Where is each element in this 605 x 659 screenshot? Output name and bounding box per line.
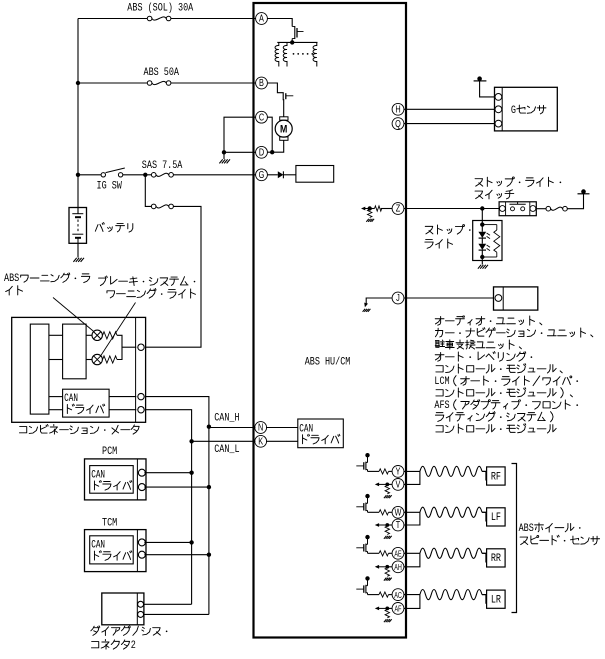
twisted pair LR — [420, 590, 482, 600]
wire diag to CAN_L bus — [144, 603, 191, 605]
wire pin B internal — [268, 83, 284, 117]
svg-text:TCM: TCM — [102, 516, 117, 528]
wire meter fuse to meter lamp pin — [145, 206, 201, 347]
pin AC — [392, 589, 404, 601]
wire CAN box to pin3 — [109, 409, 136, 411]
wire resistor to pin LR — [389, 594, 393, 596]
wire mosfet to resistor RF — [368, 470, 380, 472]
svg-text:LCM: LCM — [434, 375, 449, 387]
meter pin circle 2 — [138, 393, 144, 399]
solenoid coil n — [313, 42, 317, 66]
resistor brake lamp — [103, 356, 117, 363]
sensor box LF — [487, 508, 506, 526]
diag pin circle 1 — [138, 601, 144, 607]
label driver (PCM) — [94, 481, 131, 491]
pin V — [392, 478, 404, 490]
svg-text:PCM: PCM — [102, 445, 117, 457]
twisted pair LF — [420, 507, 482, 517]
wire left vertical feed — [77, 19, 79, 175]
svg-text:B: B — [259, 77, 264, 88]
svg-text:CAN: CAN — [64, 392, 78, 405]
wire pin2 external LF — [404, 512, 420, 525]
wire coil to sensor top RR — [482, 552, 487, 554]
wire Z int stub — [370, 208, 375, 210]
label unit list line 1 — [435, 316, 542, 326]
arrow to other circuit RR — [375, 565, 388, 569]
transistor Q1 solenoid driver — [292, 26, 303, 42]
resistor Z internal — [375, 206, 382, 211]
wire CAN_L meter to bus — [145, 410, 192, 442]
wire to SAS fuse — [145, 174, 151, 176]
wire CAN_L to pin K — [192, 440, 256, 442]
wire module link 1 — [49, 334, 63, 336]
svg-text:V: V — [396, 478, 401, 489]
label driver (U2) — [303, 434, 340, 444]
svg-text:G: G — [511, 104, 516, 116]
svg-text:ABS: ABS — [4, 272, 19, 284]
pin Z — [392, 203, 404, 215]
svg-text:CAN: CAN — [299, 422, 313, 435]
wire pin C internal — [267, 117, 272, 152]
wire TCM to CAN_H bus — [144, 554, 209, 556]
label driver (meter) — [67, 404, 104, 414]
wire pin Z internal — [381, 208, 393, 210]
svg-text:LF: LF — [491, 511, 501, 523]
resistor lower to ground LF — [385, 526, 389, 535]
svg-text:AF: AF — [395, 606, 402, 614]
resistor sensor LF — [379, 510, 389, 515]
junction lower LF — [385, 523, 389, 527]
label stop light line1 — [425, 225, 470, 234]
wire resistor to pin RF — [389, 470, 393, 472]
wire lamp join — [117, 335, 122, 359]
svg-text:ABS (SOL) 30A: ABS (SOL) 30A — [127, 1, 193, 13]
label unit list line 5 — [436, 364, 562, 374]
wire lamps to pin — [122, 346, 136, 348]
battery — [69, 208, 87, 244]
svg-text:SAS 7.5A: SAS 7.5A — [142, 159, 183, 171]
junction lower LR — [385, 607, 389, 611]
G sensor box — [495, 87, 558, 131]
svg-text:CAN: CAN — [91, 538, 105, 551]
wire mosfet to resistor LR — [368, 594, 380, 596]
sensor box RR — [487, 549, 506, 567]
ground lower LF — [384, 536, 392, 539]
wire to brake warning lamp — [86, 359, 92, 361]
pin C — [256, 111, 268, 123]
wire to IG SW — [78, 174, 101, 176]
svg-text:C: C — [259, 111, 265, 122]
wire coil to sensor bottom LR — [482, 595, 487, 604]
junction C/D/motor — [270, 150, 274, 154]
fuse ABS (SOL) 30A — [147, 16, 171, 21]
transistor sensor driver RR — [356, 539, 367, 554]
ground J internal — [363, 309, 371, 312]
label stop light switch line1 — [475, 177, 561, 187]
power dot RR — [365, 535, 369, 539]
svg-text:M: M — [280, 124, 287, 136]
svg-text:LR: LR — [491, 594, 501, 606]
wire CAN_L bus down — [191, 441, 193, 604]
wire fuse to power — [567, 194, 583, 209]
svg-text:Z: Z — [396, 203, 401, 214]
wire pin J internal — [366, 298, 392, 305]
wire meter CAN link 2 — [49, 409, 63, 411]
stop light box — [473, 221, 502, 261]
meter inner module — [30, 324, 49, 414]
pin Y — [392, 465, 404, 477]
switch stop light switch box — [499, 202, 536, 216]
svg-text:T: T — [396, 519, 401, 530]
resistor sensor LR — [379, 592, 389, 597]
sensor box RF — [487, 467, 506, 485]
resistor lower to ground RF — [385, 485, 389, 494]
junction TCM CAN_L — [189, 540, 193, 544]
junction stop light bottom — [480, 255, 484, 259]
pin K — [255, 435, 267, 447]
junction PCM CAN_L — [189, 471, 193, 475]
dotted continuation — [293, 53, 314, 55]
svg-text:AFS: AFS — [434, 399, 449, 411]
CAN driver box PCM — [90, 466, 134, 494]
ground lower RF — [384, 495, 392, 498]
wire meter CAN link 1 — [49, 396, 63, 398]
label unit list line 7 — [436, 388, 573, 398]
relay box — [296, 166, 334, 183]
wire coil to sensor top LF — [482, 511, 487, 513]
wire pin1 external LR — [404, 594, 420, 596]
label unit list line 3 — [435, 340, 521, 349]
transistor Q2 motor driver — [283, 92, 293, 99]
transistor sensor driver RF — [356, 457, 367, 472]
wire feed to battery — [77, 175, 79, 214]
wire pin2 external RF — [404, 471, 420, 484]
wire battery feed to A — [78, 18, 147, 20]
PCM box — [85, 459, 147, 500]
wire battery to ground — [77, 243, 79, 257]
junction lower RR — [385, 565, 389, 569]
junction SAS branch — [143, 173, 147, 177]
label driver (TCM) — [94, 551, 131, 561]
wire pin2 external LR — [404, 595, 420, 609]
svg-text:ABS HU/CM: ABS HU/CM — [305, 355, 351, 367]
wire CAN box to pin2 — [109, 396, 136, 398]
PCM pin circle 1 — [138, 469, 145, 476]
meter pin circle 1 — [138, 344, 144, 350]
arrow connector (J) — [364, 303, 368, 308]
wire lower pin stub RR — [387, 566, 392, 568]
wire lower pin stub RF — [387, 483, 392, 485]
pin W — [392, 506, 404, 518]
label unit list line 2 — [435, 328, 592, 338]
resistor lower to ground LR — [385, 609, 389, 618]
wire TCM to CAN_L bus — [144, 541, 191, 543]
PCM pin circle 2 — [138, 484, 145, 491]
twisted pair RF — [420, 466, 482, 476]
pin H — [392, 103, 404, 115]
ground stop light — [478, 265, 488, 269]
svg-text:IG SW: IG SW — [97, 180, 122, 192]
fuse SAS 7.5A — [151, 173, 173, 178]
ground lower RR — [384, 578, 392, 581]
CAN driver box meter — [63, 389, 110, 417]
wire pin1 external RF — [404, 470, 420, 472]
label battery — [95, 223, 132, 233]
svg-text:ABS 50A: ABS 50A — [144, 66, 180, 78]
pin B — [256, 77, 268, 89]
label unit list line 4 — [435, 352, 532, 362]
resistor stop light branch — [482, 225, 500, 257]
bracket wheel sensors — [512, 464, 517, 613]
wire coil to sensor top LR — [482, 594, 487, 596]
power dot RF — [365, 453, 369, 457]
junction Z internal — [368, 206, 372, 210]
pin N — [255, 422, 267, 434]
diode D1 — [278, 171, 284, 178]
combination meter box — [12, 317, 146, 422]
junction C/D external — [222, 150, 226, 154]
pin G — [256, 169, 268, 181]
resistor Z to ground — [368, 210, 372, 218]
power feed G sensor — [474, 76, 487, 81]
svg-text:H: H — [395, 103, 400, 114]
sensor box LR — [487, 590, 506, 608]
svg-text:CAN: CAN — [91, 468, 105, 481]
fuse meter — [151, 204, 173, 209]
wire pin D external — [224, 151, 256, 153]
label stop light line2 — [425, 239, 453, 248]
resistor sensor RF — [379, 469, 389, 474]
CAN driver box TCM — [90, 536, 134, 564]
motor M pump — [275, 117, 292, 140]
bulb diode 2 — [478, 244, 490, 251]
resistor lower to ground RR — [385, 568, 389, 577]
wire pin2 external RR — [404, 553, 420, 567]
wire power to G sensor pin1 — [480, 81, 495, 97]
label unit list line 9 — [435, 412, 553, 422]
pin D — [256, 146, 268, 158]
svg-text:K: K — [258, 435, 263, 446]
wire pin K internal — [266, 440, 298, 442]
pin AE — [392, 547, 404, 559]
label G sensor — [511, 104, 546, 116]
junction stop light top — [480, 222, 484, 226]
svg-text:RF: RF — [491, 470, 501, 482]
diag pin circle 2 — [138, 611, 144, 617]
junction lower RF — [385, 483, 389, 487]
wire PCM to CAN_H bus — [144, 486, 209, 488]
wire tap to stop light — [481, 209, 483, 221]
wire CAN_H bus down — [208, 427, 210, 615]
wire to ground C/D — [223, 152, 225, 159]
wire diode to relay box — [283, 174, 296, 176]
svg-text:N: N — [258, 422, 263, 433]
wire CAN_H meter to bus — [145, 397, 209, 427]
wire stop light to ground — [481, 257, 483, 265]
pin AH — [392, 561, 404, 573]
ground battery — [73, 258, 84, 262]
meter lamp module — [63, 324, 87, 379]
wire module link 2 — [49, 359, 63, 361]
label ABS wheel speed sensor line1 — [519, 522, 581, 534]
wire pin C external — [224, 117, 256, 152]
label unit list line 8 — [434, 399, 578, 411]
label stop light switch line2 — [475, 190, 514, 199]
wire lower pin stub LF — [387, 524, 392, 526]
TCM pin circle 2 — [138, 551, 145, 558]
wire mosfet to resistor LF — [368, 511, 380, 513]
CAN driver box U2 — [298, 419, 344, 448]
svg-text:D: D — [259, 146, 264, 157]
arrow to other circuit RF — [375, 483, 388, 487]
svg-text:2: 2 — [131, 639, 136, 651]
junction TCM CAN_H — [207, 553, 211, 557]
label diagnosis line1 — [91, 626, 168, 636]
svg-text:AE: AE — [394, 551, 402, 559]
junction stop light tap — [480, 206, 484, 210]
svg-text:AC: AC — [394, 592, 402, 600]
resistor sensor RR — [379, 551, 389, 556]
meter pin circle 3 — [138, 407, 144, 413]
label ABS wheel speed sensor line2 — [520, 535, 600, 545]
ground Z internal — [366, 219, 374, 222]
diagnosis connector box — [102, 593, 144, 625]
solenoid coil 2 — [283, 42, 287, 66]
pin AF — [392, 603, 404, 615]
label ABS warning light line2 — [6, 286, 23, 295]
fuse stop light — [546, 206, 567, 211]
wire lower pin stub LR — [387, 607, 392, 609]
label unit list line 10 — [436, 424, 556, 434]
lamp brake system warning light — [92, 354, 102, 364]
wire fuse to pin B — [171, 82, 256, 84]
wire coil to sensor bottom RR — [482, 553, 487, 562]
svg-text:J: J — [396, 292, 400, 303]
wire diag to CAN_H bus — [144, 613, 209, 615]
wire mosfet to resistor RR — [368, 552, 380, 554]
ABS HU/CM unit box — [254, 3, 407, 638]
svg-text:AH: AH — [394, 564, 402, 572]
wire pin1 external RR — [404, 552, 420, 554]
wire IG SW to junction — [123, 174, 146, 176]
wire pin Q to G sensor — [404, 123, 495, 125]
label diagnosis line2 — [91, 639, 136, 651]
G sensor pin circles — [495, 94, 502, 128]
leader ABS warning — [53, 298, 94, 332]
wire to ABS warning lamp — [86, 334, 92, 336]
ground C/D — [219, 159, 230, 163]
label combination meter — [19, 425, 139, 435]
wire coil to sensor bottom RF — [482, 471, 487, 480]
junction CAN_H at N — [207, 425, 211, 429]
junction PCM CAN_H — [207, 485, 211, 489]
wire coil to sensor top RF — [482, 470, 487, 472]
twisted pair RR — [420, 548, 482, 558]
wire to ABS 50A fuse — [78, 82, 147, 84]
wire pin A internal — [267, 19, 292, 27]
wire resistor to pin LF — [389, 511, 393, 513]
wire pin1 external LF — [404, 511, 420, 513]
svg-text:A: A — [259, 13, 264, 24]
leader brake warning — [101, 303, 136, 356]
wire between bulbs — [481, 238, 483, 244]
wire solenoid bus — [277, 41, 317, 43]
label unit list line 6 — [434, 375, 578, 387]
solenoid coil 1 — [275, 42, 279, 66]
junction CAN_L at K — [189, 439, 193, 443]
audio unit box — [494, 287, 538, 310]
label ABS warning light line1 — [4, 272, 90, 284]
svg-text:G: G — [259, 169, 265, 180]
wire pin H to G sensor — [404, 108, 495, 110]
junction solenoid bus — [290, 40, 294, 44]
wire branch down to meter fuse — [145, 175, 151, 207]
resistor ABS lamp — [103, 332, 117, 339]
pin J — [392, 292, 404, 304]
transistor sensor driver LF — [356, 498, 367, 513]
wire resistor to pin RR — [389, 552, 393, 554]
bulb diode 1 — [478, 232, 490, 239]
wire motor to D — [267, 140, 283, 152]
svg-text:CAN_H: CAN_H — [214, 412, 239, 424]
wire pin N internal — [266, 427, 298, 429]
wire pin J external — [404, 297, 494, 299]
switch IG SW — [101, 168, 125, 177]
power dot LR — [365, 576, 369, 580]
fuse ABS 50A — [147, 81, 171, 86]
wire lamp branch — [481, 221, 483, 232]
power dot LF — [365, 494, 369, 498]
junction feed/IG — [76, 173, 80, 177]
transistor sensor driver LR — [356, 580, 367, 595]
label brake warning line1 — [99, 276, 196, 286]
ground lower LR — [384, 619, 392, 622]
lamp ABS warning light — [92, 330, 102, 340]
svg-text:ABS: ABS — [519, 522, 534, 534]
pin T — [392, 519, 404, 531]
wire pin Z external — [404, 208, 499, 210]
wire coil to sensor bottom LF — [482, 512, 487, 521]
junction feed/ABS50A — [76, 81, 80, 85]
wire CAN_H to pin N — [209, 427, 256, 429]
svg-text:Y: Y — [396, 465, 401, 476]
wire PCM to CAN_L bus — [144, 472, 191, 474]
label brake warning line2 — [107, 289, 195, 299]
svg-text:Q: Q — [395, 118, 401, 129]
TCM pin circle 1 — [138, 539, 145, 546]
pin Q — [392, 118, 404, 130]
svg-text:W: W — [395, 506, 402, 517]
wire bulb to bottom — [481, 250, 483, 257]
wire pin G internal — [267, 174, 277, 176]
wire switch to fuse — [536, 208, 546, 210]
arrow to other circuit (Z) — [361, 207, 370, 211]
power feed stop light — [578, 189, 590, 194]
wire SAS fuse to pin G — [173, 174, 255, 176]
svg-text:RR: RR — [491, 552, 501, 564]
pin A — [256, 13, 268, 25]
TCM box — [85, 530, 147, 572]
arrow to other circuit LF — [375, 523, 388, 527]
wire fuse to pin A — [171, 18, 256, 20]
svg-text:CAN_L: CAN_L — [214, 443, 239, 455]
arrow to other circuit LR — [375, 607, 388, 611]
